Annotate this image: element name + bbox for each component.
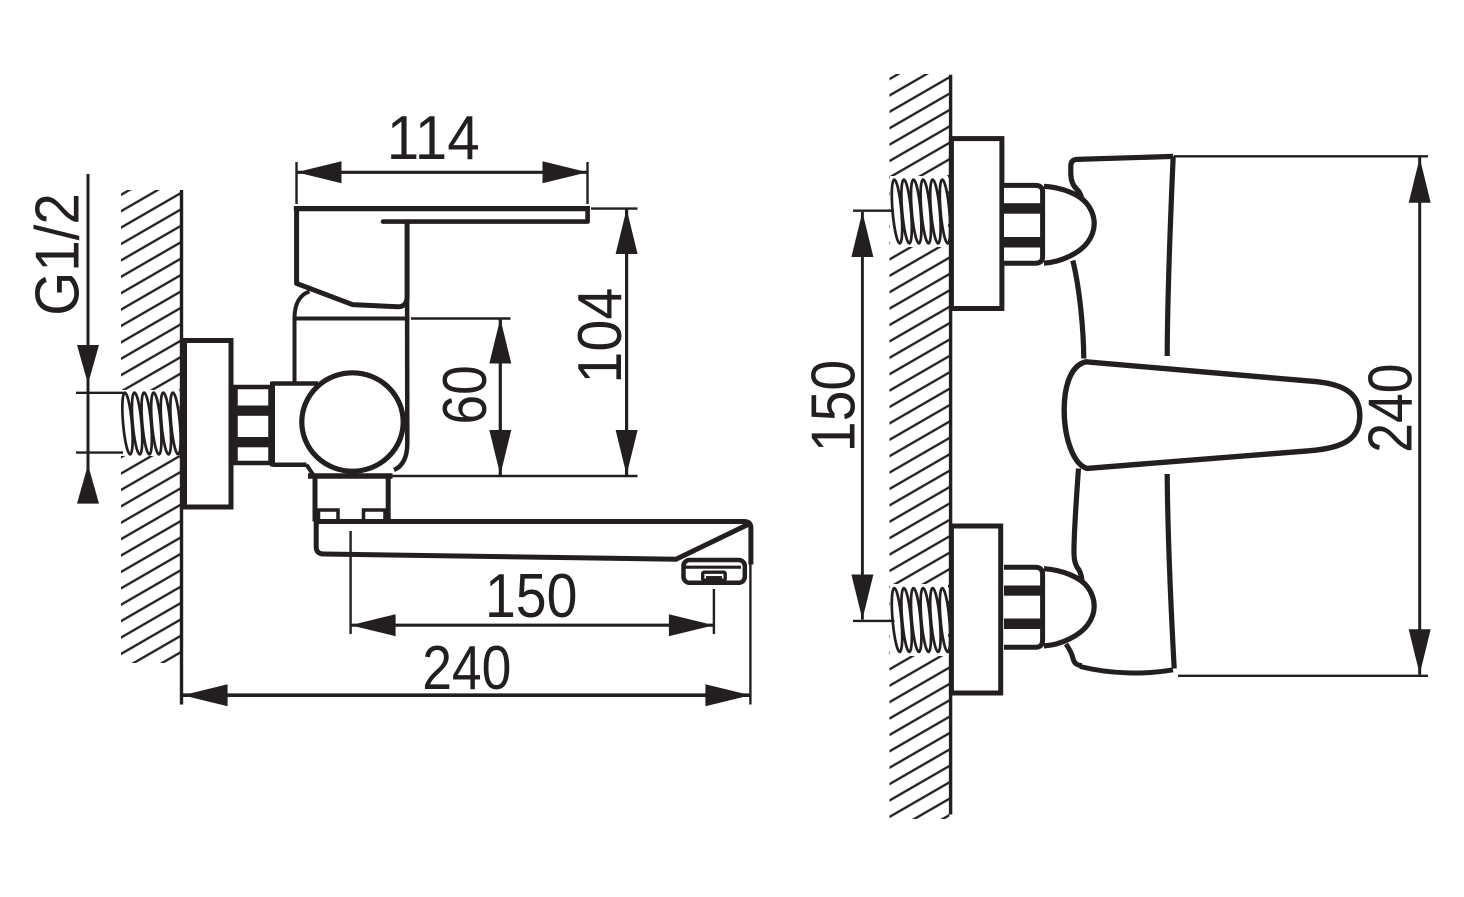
union dome bottom (1044, 569, 1094, 646)
wall hatch (right view) (890, 74, 950, 819)
dimension 150 line (351, 624, 714, 627)
hex nut band lower (234, 437, 271, 447)
dimension 114 extension right (586, 162, 588, 204)
hex nut bottom interior (1004, 570, 1040, 645)
hex nut bottom outline (1004, 567, 1043, 647)
dimension G1/2 arrow down (77, 345, 99, 384)
dimension 240 right-view extension bottom (1178, 675, 1428, 677)
threaded pipe top coils (890, 179, 952, 244)
dimension 150 right-view extension top (853, 209, 894, 211)
bracket notch right (364, 510, 386, 521)
dimension 104 extension top (591, 207, 638, 209)
spout diagonal cut (677, 524, 749, 559)
valve body right edge (394, 298, 407, 470)
dimension 150 extension right (713, 589, 715, 634)
svg-text:150: 150 (798, 360, 868, 452)
spout top line (316, 522, 751, 565)
svg-text:240: 240 (1356, 364, 1426, 453)
threaded pipe top backing (890, 176, 948, 247)
aerator housing (684, 560, 745, 583)
svg-text:150: 150 (485, 561, 577, 631)
dimension 60 arrow up (489, 319, 511, 364)
dimension 114 extension left (295, 162, 297, 204)
shared extension line (60/104 bottom) (393, 475, 638, 477)
valve connector bottom edge (273, 462, 307, 467)
dimension 240 right-view arrow up (1409, 158, 1431, 203)
hex nut bottom band lower (1004, 619, 1040, 630)
dimension 114 line (297, 171, 588, 174)
dimension 104 arrow down (616, 430, 638, 475)
hex nut (left view) (236, 387, 271, 463)
lever handle bottom line (383, 219, 588, 224)
wall face line (right view) (949, 75, 952, 815)
mid-body left shoulder (295, 292, 310, 384)
body left edge below lever (1074, 469, 1082, 582)
dimension 240 right-view line (1418, 157, 1421, 675)
hex nut bottom band upper (1004, 586, 1040, 596)
lever handle right cap (585, 207, 590, 222)
valve connector left edge (270, 382, 275, 467)
dimension 114 arrow left (297, 161, 342, 183)
wall face line (left view) (180, 190, 183, 705)
union dome top (1044, 186, 1094, 263)
wall flange top (front view) (951, 139, 1002, 309)
body bottom edge (1080, 667, 1173, 673)
dimension 240 right-view arrow down (1409, 629, 1431, 674)
dimension 150 right-view arrow up (851, 212, 873, 257)
body right edge lower (1167, 474, 1174, 669)
dimension G1/2 tick top (76, 392, 123, 394)
lever handle (front view) (1064, 362, 1360, 469)
dimension 114 arrow right (543, 161, 588, 183)
dimension 240 line (183, 693, 751, 697)
dimension 104 arrow up (616, 209, 638, 254)
valve connector top edge (273, 381, 319, 386)
svg-text:114: 114 (387, 103, 480, 173)
dimension 60 line (499, 319, 502, 475)
dimension 240 right-view extension top (1174, 155, 1428, 157)
valve connector step (307, 465, 315, 476)
dimension 150 right-view arrow down (851, 575, 873, 620)
dimension 240 arrow right (705, 684, 750, 706)
line under valve circle (308, 473, 393, 479)
dimension G1/2 arrow up (77, 465, 99, 504)
dimension 60 extension top (411, 317, 511, 319)
body left edge between connections (1073, 261, 1084, 359)
hex nut top band lower (1004, 237, 1040, 248)
svg-text:240: 240 (422, 633, 511, 703)
aerator insert line (706, 576, 722, 579)
dimension 150 right-view line (861, 212, 864, 620)
svg-text:60: 60 (430, 365, 500, 424)
dimension 150 arrow right (669, 614, 714, 636)
dimension 240 extension right (749, 564, 751, 705)
dimension 150 extension left (349, 531, 351, 634)
threaded pipe G1/2 coils (120, 392, 182, 455)
dimension G1/2 tick bottom (76, 451, 123, 453)
valve circle (302, 373, 403, 471)
mid-body shelf line (293, 317, 410, 321)
bracket notch left (319, 510, 339, 521)
bracket right edge (386, 476, 391, 522)
body top-left corner and shoulder (1071, 159, 1082, 199)
wall flange bottom (front view) (951, 526, 1000, 693)
wall flange (left view) (185, 341, 232, 508)
aerator inner line (685, 566, 741, 569)
spout left and bottom (316, 522, 677, 560)
dimension G1/2 leader line (87, 174, 90, 502)
body top edge (1077, 156, 1173, 159)
aerator insert (703, 572, 726, 580)
hex nut top interior (1004, 188, 1040, 261)
lever handle top line (294, 206, 590, 211)
threaded pipe bottom backing (890, 584, 948, 656)
hex nut top outline (1004, 185, 1043, 263)
body edge below lower dome (1066, 644, 1082, 666)
bracket left edge (313, 476, 318, 522)
dimension 60 arrow down (489, 430, 511, 475)
threaded pipe bottom coils (890, 588, 952, 653)
threaded pipe G1/2 backing (121, 390, 180, 456)
wall hatch (left view) (121, 190, 182, 663)
hex nut band upper (234, 406, 271, 416)
svg-text:104: 104 (565, 288, 635, 384)
svg-text:G1/2: G1/2 (23, 193, 93, 316)
dimension 104 line (625, 209, 628, 475)
dimension 150 right-view extension bottom (853, 620, 895, 622)
body right edge upper (1167, 156, 1173, 356)
dimension 150 arrow left (351, 614, 396, 636)
cartridge housing outline (297, 206, 408, 307)
hex nut top band upper (1004, 203, 1040, 214)
dimension 240 arrow left (183, 684, 228, 706)
